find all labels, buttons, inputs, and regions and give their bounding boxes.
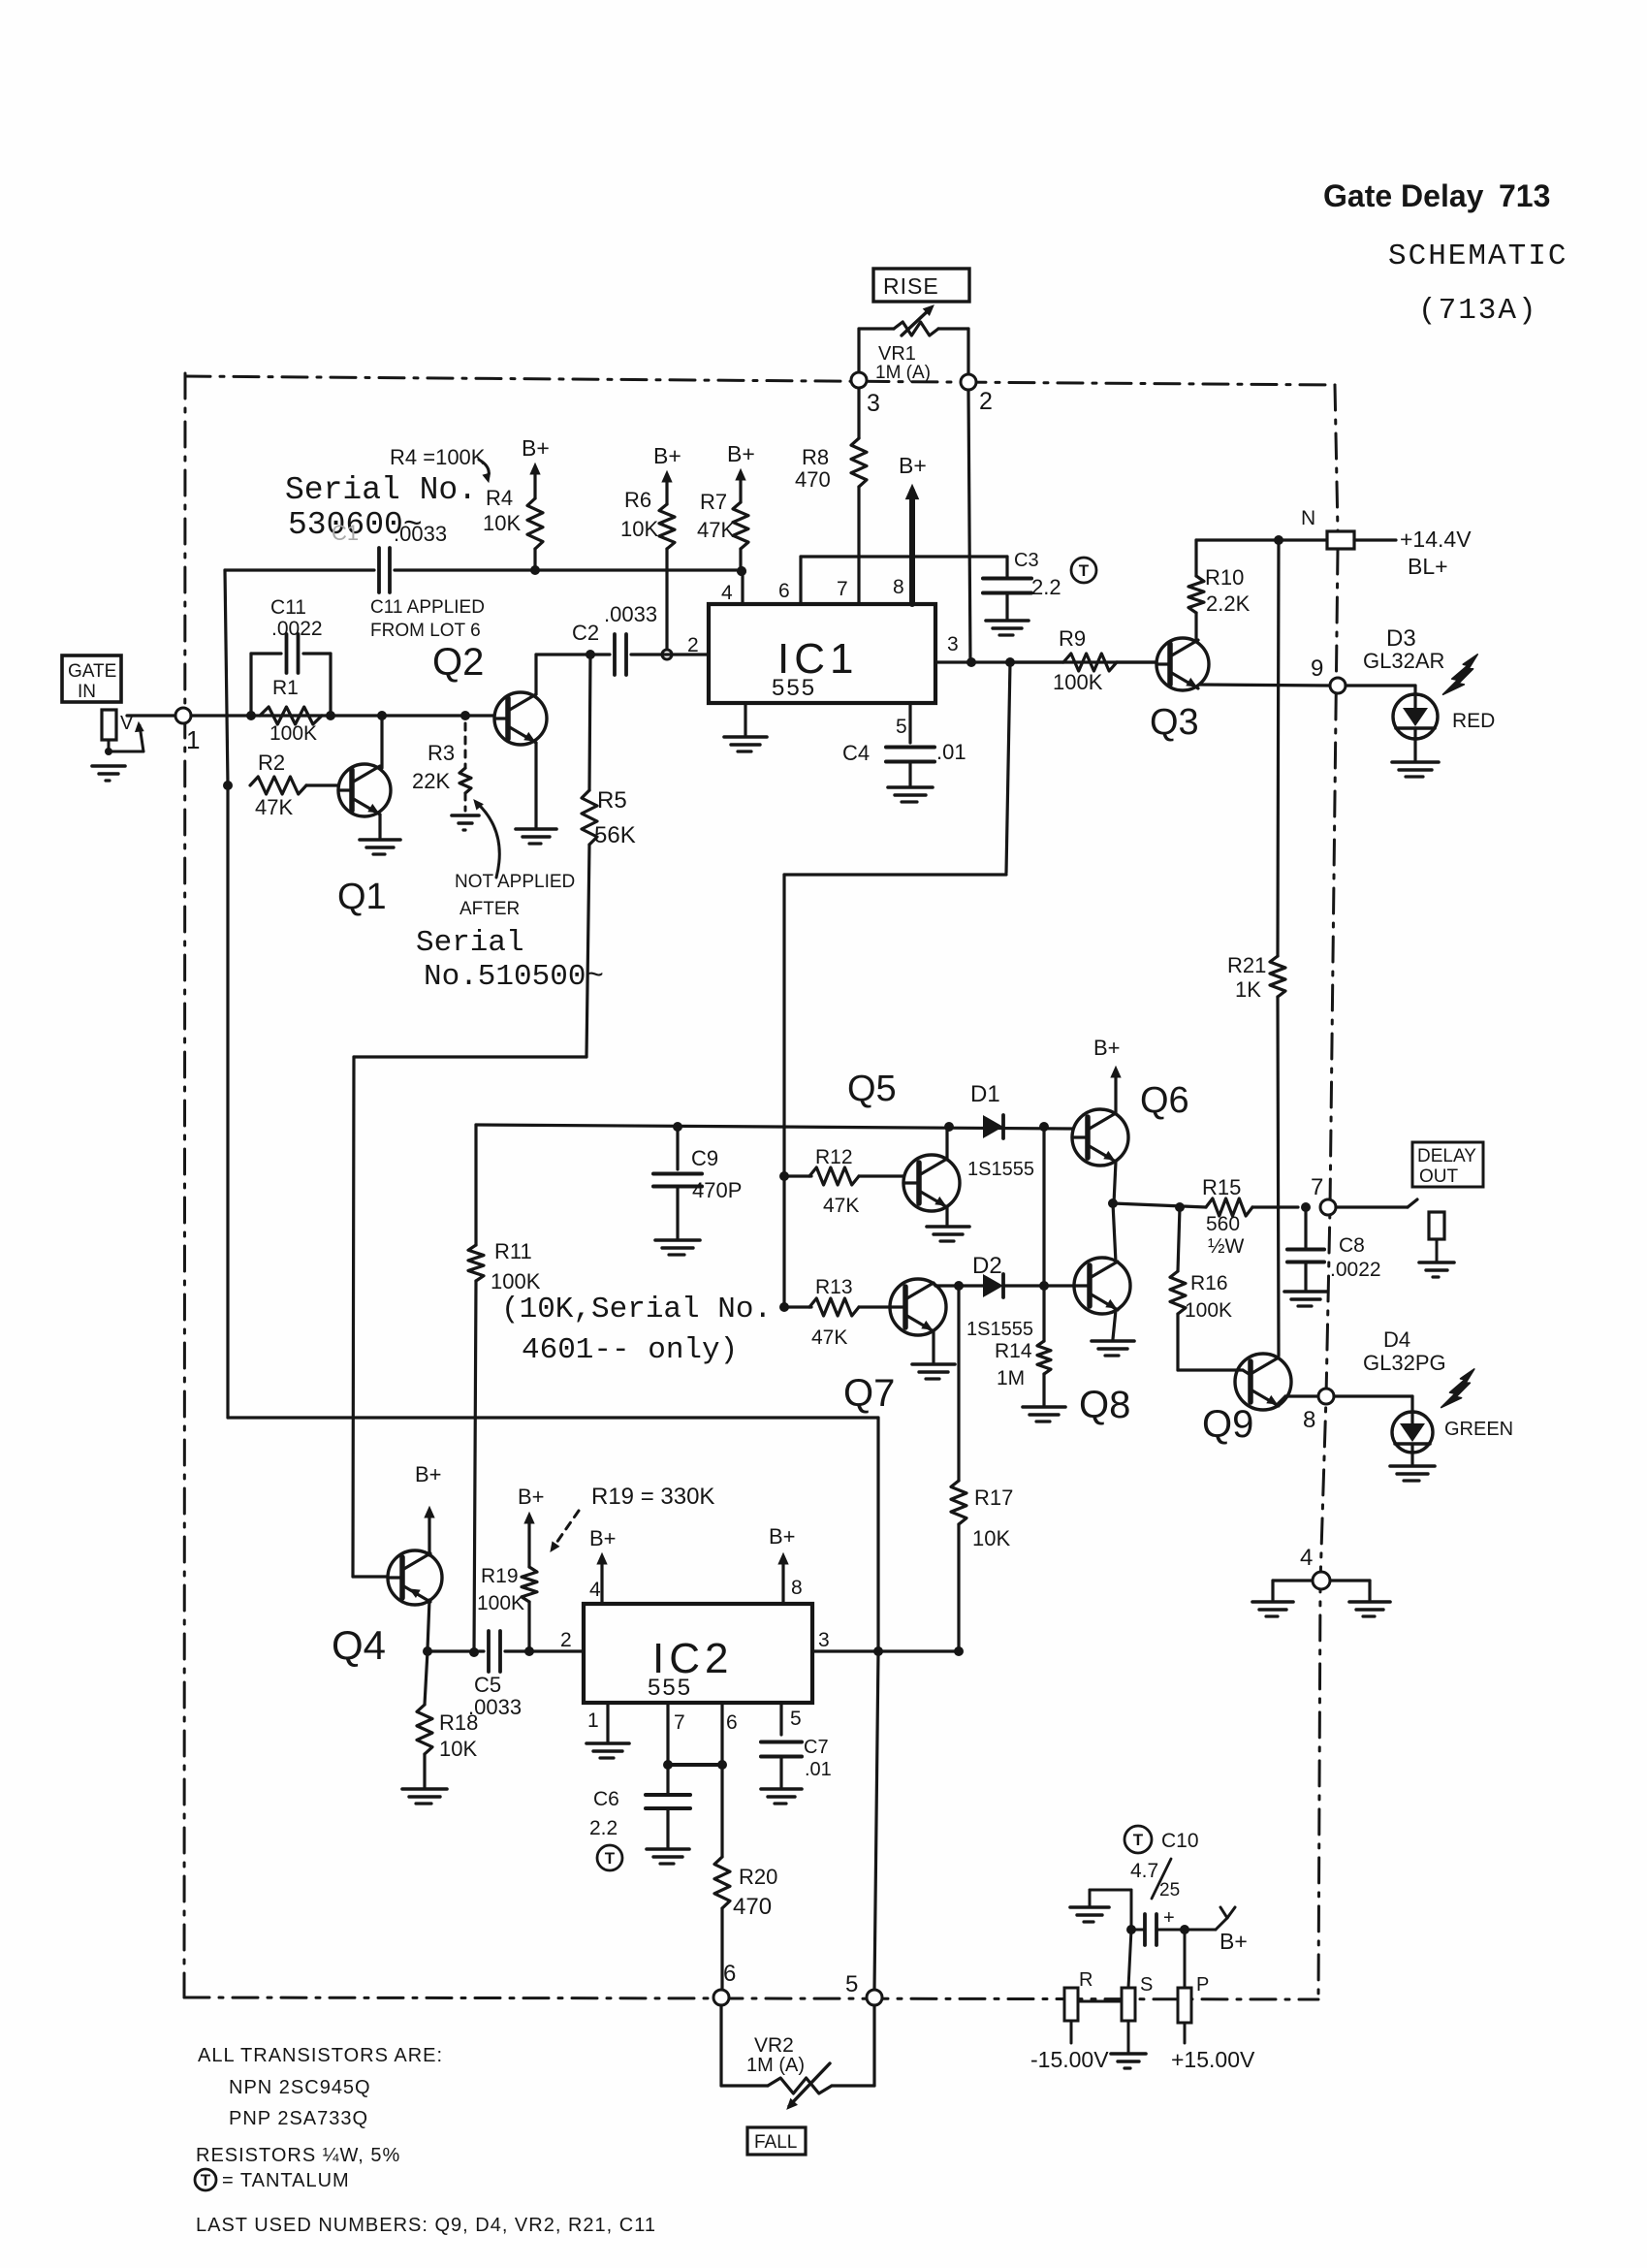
svg-text:GREEN: GREEN <box>1444 1419 1513 1440</box>
svg-text:Q3: Q3 <box>1150 702 1199 743</box>
wire Q3 emitter to node 9 <box>1200 685 1330 686</box>
transistor Q1 <box>338 764 391 816</box>
svg-text:B+: B+ <box>518 1485 545 1509</box>
wire C1 line left segment <box>225 568 374 571</box>
svg-text:2.2K: 2.2K <box>1206 591 1251 616</box>
resistor R6 <box>665 477 668 504</box>
svg-text:10K: 10K <box>483 511 521 535</box>
node 4 with grounds <box>1273 1579 1313 1581</box>
node 1 <box>175 708 191 723</box>
svg-text:R21: R21 <box>1227 953 1266 977</box>
svg-text:Q1: Q1 <box>337 877 387 917</box>
svg-text:470: 470 <box>795 467 831 492</box>
svg-text:D4: D4 <box>1383 1327 1410 1352</box>
svg-text:R7: R7 <box>700 490 727 514</box>
diode D2 <box>983 1274 1003 1297</box>
svg-text:25: 25 <box>1159 1880 1180 1901</box>
svg-text:100K: 100K <box>1185 1299 1232 1322</box>
svg-text:1M (A): 1M (A) <box>746 2055 805 2076</box>
svg-text:T: T <box>605 1849 616 1868</box>
svg-text:FROM LOT 6: FROM LOT 6 <box>370 621 481 641</box>
ground at R18 <box>402 1787 447 1791</box>
connector R <box>1064 1988 1078 2021</box>
svg-text:B+: B+ <box>727 441 755 466</box>
capacitor C9 <box>673 1122 682 1132</box>
svg-text:2: 2 <box>687 634 699 656</box>
transistor Q2 <box>494 692 547 745</box>
svg-text:B+: B+ <box>899 453 927 478</box>
svg-text:2: 2 <box>979 388 993 415</box>
svg-text:GL32AR: GL32AR <box>1363 649 1444 673</box>
DELAY OUT label box <box>1412 1142 1483 1187</box>
ground left of C10 <box>1070 1905 1109 1909</box>
timer IC2 555 box <box>584 1604 812 1703</box>
wire node 2 down to IC1 pin3 line <box>968 390 970 662</box>
svg-text:PNP 2SA733Q: PNP 2SA733Q <box>229 2108 368 2129</box>
svg-text:C3: C3 <box>1014 550 1039 571</box>
ground at C8 <box>1284 1290 1327 1294</box>
svg-text:3: 3 <box>818 1629 830 1651</box>
IC1 pin 6 stub and wire to C3 <box>799 557 802 604</box>
wire R16 to Q9 base <box>1178 1368 1243 1371</box>
svg-text:+14.4V: +14.4V <box>1400 527 1472 552</box>
resistor R15 <box>1206 1198 1252 1216</box>
svg-text:5: 5 <box>845 1971 858 1997</box>
wire input to node 1 <box>127 714 175 717</box>
svg-text:P: P <box>1196 1974 1209 1996</box>
svg-text:Q9: Q9 <box>1202 1403 1253 1446</box>
lightning mark at D3 <box>1443 655 1478 694</box>
wire Q4 emitter to pin2 line <box>428 1600 429 1649</box>
transistor Q4 <box>388 1550 442 1605</box>
svg-text:1S1555: 1S1555 <box>967 1159 1034 1180</box>
svg-text:RED: RED <box>1452 710 1495 732</box>
node 6 <box>713 1990 729 2005</box>
ground at Q2 emitter <box>516 827 556 831</box>
svg-text:R5: R5 <box>597 787 627 814</box>
potentiometer VR2 loop <box>719 2005 722 2086</box>
IC2 pin 4 B+ stub <box>600 1557 603 1604</box>
resistor R1 <box>260 707 322 724</box>
svg-text:Serial: Serial <box>416 926 524 960</box>
svg-text:RESISTORS ¼W, 5%: RESISTORS ¼W, 5% <box>196 2145 400 2166</box>
connector P <box>1178 1988 1191 2023</box>
wire to R2 <box>223 781 233 790</box>
wire C2 to IC1 pin 2 <box>631 653 709 655</box>
wire C10 to ground left <box>1130 1890 1133 1930</box>
wire R11 corner to Q6 base (delay line) <box>476 1125 1072 1129</box>
transistor Q3 <box>1156 638 1209 690</box>
wire Q6 emitter down to output junction <box>1114 1162 1116 1203</box>
svg-text:3: 3 <box>867 390 880 417</box>
transistor Q6 <box>1072 1109 1128 1166</box>
svg-text:Q8: Q8 <box>1079 1384 1130 1426</box>
RISE label box <box>873 269 969 302</box>
svg-text:47K: 47K <box>811 1326 847 1349</box>
svg-text:1: 1 <box>186 725 200 754</box>
svg-text:GATE: GATE <box>68 661 116 682</box>
wire P up to C10 <box>1184 1930 1187 1988</box>
dash-dot border left side <box>184 373 185 1997</box>
svg-text:(713A): (713A) <box>1418 294 1538 328</box>
svg-text:GL32PG: GL32PG <box>1363 1351 1446 1375</box>
note tantalum legend <box>195 2169 216 2190</box>
svg-text:47K: 47K <box>697 518 735 542</box>
transistor Q7 <box>890 1279 946 1335</box>
op-amp/timer IC1 555 box <box>709 604 935 703</box>
IC1 pin 1 ground stub <box>744 703 746 735</box>
resistor R4 <box>533 469 536 498</box>
FALL label box <box>747 2127 806 2155</box>
svg-text:Serial No.: Serial No. <box>285 472 477 508</box>
svg-text:560: 560 <box>1206 1213 1240 1235</box>
svg-text:R19: R19 <box>481 1565 519 1587</box>
svg-text:N: N <box>1301 507 1315 529</box>
wire pin7 to pin6 column <box>668 1763 722 1767</box>
IC2 pin 1 ground stub <box>606 1703 609 1741</box>
ground at C3 <box>986 619 1029 623</box>
svg-text:BL+: BL+ <box>1408 554 1448 579</box>
wire Q9 emitter to node 8 <box>1278 1396 1285 1404</box>
wire node7 to output jack <box>1336 1205 1408 1208</box>
svg-text:R9: R9 <box>1059 626 1086 651</box>
lightning mark at D4 <box>1441 1369 1474 1408</box>
svg-text:1M (A): 1M (A) <box>875 363 931 383</box>
wire C5 to IC2 pin 2 <box>505 1649 584 1652</box>
wire D1 junction down to D2 junction <box>1042 1127 1045 1286</box>
svg-text:B+: B+ <box>522 435 550 461</box>
svg-text:IN: IN <box>78 682 96 702</box>
svg-text:1S1555: 1S1555 <box>966 1319 1033 1340</box>
node 8 <box>1318 1389 1334 1404</box>
svg-text:FALL: FALL <box>754 2132 797 2153</box>
svg-text:8: 8 <box>791 1577 803 1599</box>
svg-text:C1: C1 <box>332 521 359 545</box>
svg-text:C11: C11 <box>270 596 306 619</box>
svg-text:.0022: .0022 <box>1330 1259 1381 1281</box>
svg-text:6: 6 <box>778 580 790 602</box>
resistor R10 and wire to top rail <box>1194 613 1197 642</box>
svg-text:Q6: Q6 <box>1140 1080 1189 1121</box>
svg-text:5: 5 <box>896 716 907 738</box>
svg-text:R8: R8 <box>802 445 829 469</box>
wire IC1 pin3 down and jog left to R12/R13 column <box>1006 662 1010 873</box>
svg-text:½W: ½W <box>1208 1235 1245 1258</box>
svg-text:2: 2 <box>560 1629 572 1651</box>
svg-text:R6: R6 <box>624 488 651 512</box>
capacitor C11 loop wires <box>249 654 252 716</box>
svg-text:R4: R4 <box>486 486 513 510</box>
svg-text:1: 1 <box>587 1709 599 1732</box>
svg-text:22K: 22K <box>412 769 450 793</box>
connector S <box>1122 1988 1135 2021</box>
svg-text:9: 9 <box>1311 655 1323 682</box>
ground at Q5 emitter <box>927 1225 969 1229</box>
svg-text:1K: 1K <box>1235 977 1261 1002</box>
svg-text:+: + <box>1163 1907 1175 1929</box>
svg-text:S: S <box>1140 1974 1153 1996</box>
node 2 <box>961 374 976 390</box>
capacitor C3 with tantalum mark <box>1005 557 1008 578</box>
connector N box <box>1327 531 1354 549</box>
svg-text:7: 7 <box>1311 1174 1323 1200</box>
ground at C6 <box>647 1847 689 1851</box>
svg-text:= TANTALUM: = TANTALUM <box>222 2170 350 2191</box>
svg-text:NOT APPLIED: NOT APPLIED <box>455 872 575 892</box>
svg-text:RISE: RISE <box>883 273 939 299</box>
wire feedback IC2 output to Q1 area <box>228 1416 878 1419</box>
svg-text:R20: R20 <box>739 1865 777 1889</box>
LED D4 green <box>1392 1412 1433 1453</box>
wire node 8 to LED D4 <box>1334 1394 1412 1397</box>
IC1 pin 5 stub <box>908 703 911 743</box>
wire node 1 to Q2 base <box>191 714 494 717</box>
wire node 9 to LED D3 <box>1346 684 1415 687</box>
svg-text:D1: D1 <box>970 1081 1000 1107</box>
wire Q7 collector line to D2 <box>935 1284 983 1287</box>
capacitor C5 <box>487 1631 491 1672</box>
svg-text:LAST USED NUMBERS: Q9, D4, VR: LAST USED NUMBERS: Q9, D4, VR2, R21, C11 <box>196 2215 656 2236</box>
dash-dot border bottom side <box>184 1997 1318 1999</box>
svg-text:+15.00V: +15.00V <box>1171 2047 1255 2072</box>
IC2 pin 7 stub <box>666 1703 669 1765</box>
capacitor C6 with tantalum mark <box>666 1765 669 1793</box>
svg-text:713: 713 <box>1499 178 1550 213</box>
transistor Q8 <box>1074 1258 1130 1314</box>
svg-text:10K: 10K <box>439 1737 477 1761</box>
resistor R21 on vertical rail <box>1278 540 1279 956</box>
svg-text:B+: B+ <box>1219 1929 1248 1954</box>
IC1 pin 4 stub <box>741 570 744 604</box>
svg-text:C9: C9 <box>691 1146 718 1170</box>
svg-text:2.2: 2.2 <box>589 1817 618 1839</box>
svg-text:.01: .01 <box>936 740 966 764</box>
ground at input jack <box>92 764 125 768</box>
wire C1 line down to node1 column <box>225 570 228 785</box>
svg-text:R2: R2 <box>258 751 285 775</box>
svg-text:100K: 100K <box>1053 670 1103 694</box>
svg-text:R16: R16 <box>1190 1272 1228 1294</box>
node 9 <box>1330 678 1346 693</box>
svg-text:R17: R17 <box>974 1485 1013 1510</box>
IC1 pin 8 B+ thick arrow <box>909 491 915 604</box>
svg-text:Q4: Q4 <box>332 1622 386 1668</box>
svg-text:.0022: .0022 <box>271 618 323 640</box>
junction dots on input wire <box>246 711 256 720</box>
svg-text:5: 5 <box>790 1708 802 1730</box>
output jack <box>1429 1212 1444 1239</box>
svg-text:R: R <box>1079 1969 1093 1991</box>
svg-text:C4: C4 <box>842 741 870 765</box>
svg-text:No.510500~: No.510500~ <box>424 960 604 994</box>
svg-text:(10K,Serial No.: (10K,Serial No. <box>501 1293 772 1326</box>
ground below S <box>1111 2052 1146 2056</box>
svg-text:10K: 10K <box>972 1526 1010 1550</box>
transistor Q5 <box>903 1155 960 1211</box>
svg-text:R15: R15 <box>1202 1175 1241 1199</box>
resistor R12 <box>784 1174 811 1177</box>
wire junction to R15 <box>1113 1203 1206 1207</box>
input jack J1 <box>102 710 116 740</box>
capacitor C1 <box>377 548 381 592</box>
capacitor C11 <box>285 634 289 673</box>
svg-text:R11: R11 <box>494 1239 532 1263</box>
svg-text:4: 4 <box>1300 1545 1313 1571</box>
svg-text:1M: 1M <box>997 1367 1025 1390</box>
svg-text:T: T <box>201 2171 211 2189</box>
svg-text:SCHEMATIC: SCHEMATIC <box>1388 240 1568 273</box>
svg-text:R19 = 330K: R19 = 330K <box>591 1484 714 1510</box>
svg-text:555: 555 <box>772 675 816 701</box>
resistor R11 <box>474 1125 477 1245</box>
svg-text:100K: 100K <box>477 1592 524 1614</box>
svg-text:R13: R13 <box>815 1276 853 1298</box>
svg-text:C6: C6 <box>593 1788 619 1810</box>
svg-text:OUT: OUT <box>1419 1166 1459 1187</box>
svg-text:VR2: VR2 <box>754 2034 794 2057</box>
wire S up to C10 <box>1128 1930 1131 1988</box>
svg-text:4601-- only): 4601-- only) <box>522 1333 738 1367</box>
capacitor C2 <box>613 634 617 675</box>
svg-text:7: 7 <box>674 1711 685 1734</box>
IC2 pin 8 B+ stub <box>781 1557 784 1604</box>
svg-text:B+: B+ <box>589 1526 617 1550</box>
note arrow pointing to R3 <box>477 803 499 878</box>
svg-text:D3: D3 <box>1386 625 1416 652</box>
ground at Q8 emitter <box>1092 1339 1134 1343</box>
svg-text:C11 APPLIED: C11 APPLIED <box>370 597 485 618</box>
svg-text:.0033: .0033 <box>604 602 657 626</box>
wire Q4 emitter to C5 <box>428 1649 484 1652</box>
svg-text:47K: 47K <box>823 1195 859 1217</box>
svg-text:ALL TRANSISTORS ARE:: ALL TRANSISTORS ARE: <box>198 2045 443 2066</box>
B+ feed at power entry <box>1185 1929 1216 1932</box>
svg-text:C2: C2 <box>572 621 599 645</box>
svg-text:.01: .01 <box>805 1759 832 1780</box>
potentiometer VR1 <box>857 329 860 372</box>
svg-text:100K: 100K <box>269 722 317 745</box>
ground at Q1 emitter <box>360 838 400 842</box>
resistor R17 <box>957 1286 960 1481</box>
svg-text:8: 8 <box>1303 1407 1315 1433</box>
svg-text:T: T <box>1133 1831 1144 1849</box>
svg-text:8: 8 <box>893 576 904 598</box>
svg-text:DELAY: DELAY <box>1417 1146 1476 1166</box>
resistor R18 <box>425 1651 428 1705</box>
svg-text:NPN 2SC945Q: NPN 2SC945Q <box>229 2077 371 2098</box>
svg-text:B+: B+ <box>415 1462 442 1486</box>
svg-text:-15.00V: -15.00V <box>1030 2047 1109 2072</box>
capacitor C4 <box>886 746 934 750</box>
svg-text:Q7: Q7 <box>843 1372 895 1415</box>
svg-text:C8: C8 <box>1339 1234 1365 1257</box>
resistor R9 <box>1010 660 1063 663</box>
svg-text:C7: C7 <box>804 1737 829 1758</box>
svg-text:T: T <box>1079 561 1090 580</box>
capacitor C10 tantalum <box>1131 1929 1145 1932</box>
svg-text:4: 4 <box>721 582 733 604</box>
svg-text:R1: R1 <box>272 677 299 699</box>
resistor R19 <box>527 1602 530 1651</box>
svg-text:R10: R10 <box>1205 565 1244 590</box>
IC1 pin 3 output wire <box>935 660 1156 663</box>
svg-text:C5: C5 <box>474 1673 501 1697</box>
svg-text:470: 470 <box>733 1894 772 1920</box>
IC2 pin 3 output wire <box>812 1649 959 1652</box>
svg-text:R4 =100K: R4 =100K <box>390 445 486 469</box>
node 5 <box>867 1990 882 2005</box>
ground at Q7 emitter <box>912 1362 955 1366</box>
ground at D3 <box>1392 760 1439 764</box>
capacitor C7 <box>761 1741 802 1744</box>
svg-text:VR1: VR1 <box>878 343 916 365</box>
LED D3 red <box>1393 694 1438 739</box>
svg-text:R3: R3 <box>428 741 455 765</box>
resistor R13 <box>779 1302 789 1312</box>
resistor R20 <box>714 1857 730 1908</box>
svg-text:6: 6 <box>723 1961 736 1987</box>
IC2 pin 6 stub down to node 6 <box>720 1703 723 1857</box>
svg-text:B+: B+ <box>769 1524 796 1549</box>
svg-text:100K: 100K <box>491 1269 541 1294</box>
dash-dot border top side <box>185 376 1335 385</box>
ground at R3 <box>452 814 479 817</box>
svg-text:R14: R14 <box>995 1340 1032 1362</box>
ground at C7 <box>761 1787 802 1791</box>
resistor R8 <box>857 388 860 438</box>
svg-text:6: 6 <box>726 1711 738 1734</box>
svg-text:Q5: Q5 <box>847 1069 897 1109</box>
wire R5 jog to Q4 base column <box>354 1055 586 1058</box>
ground at C9 <box>655 1238 700 1242</box>
svg-text:C10: C10 <box>1161 1830 1199 1852</box>
wire C1 line right segment <box>395 568 743 571</box>
wire N to +14.4V <box>1354 538 1396 541</box>
svg-text:AFTER: AFTER <box>459 899 520 919</box>
resistor R7 <box>739 475 742 502</box>
dash-dot border right side <box>1335 385 1338 531</box>
GATE IN label box <box>62 655 121 702</box>
node 7 <box>1320 1199 1336 1215</box>
capacitor C8 <box>1304 1207 1307 1247</box>
ground at D4 <box>1390 1464 1435 1468</box>
svg-text:47K: 47K <box>255 795 293 819</box>
svg-text:4: 4 <box>589 1579 601 1601</box>
svg-text:3: 3 <box>947 633 959 655</box>
svg-text:470P: 470P <box>692 1178 742 1202</box>
svg-text:B+: B+ <box>1093 1036 1121 1060</box>
wire Q2 collector to C2 <box>536 653 610 655</box>
svg-text:D2: D2 <box>972 1253 1002 1279</box>
resistor R3 (dashed, not applied) <box>464 723 467 768</box>
ground at C4 <box>888 785 933 789</box>
svg-text:R12: R12 <box>815 1146 853 1168</box>
resistor R5 <box>589 655 590 790</box>
ground at R14 <box>1023 1405 1065 1409</box>
wire R to S <box>1078 2000 1123 2003</box>
transistor Q9 <box>1235 1354 1291 1410</box>
svg-text:2.2: 2.2 <box>1031 575 1061 599</box>
svg-text:Gate Delay: Gate Delay <box>1323 178 1484 213</box>
resistor R2 <box>250 777 306 794</box>
node 3 <box>851 372 867 388</box>
svg-text:.0033: .0033 <box>394 522 447 546</box>
svg-text:Q2: Q2 <box>432 641 484 684</box>
resistor R14 <box>1042 1286 1045 1341</box>
svg-text:4.7: 4.7 <box>1130 1860 1158 1882</box>
svg-text:555: 555 <box>648 1675 692 1701</box>
diode D1 <box>983 1115 1003 1138</box>
